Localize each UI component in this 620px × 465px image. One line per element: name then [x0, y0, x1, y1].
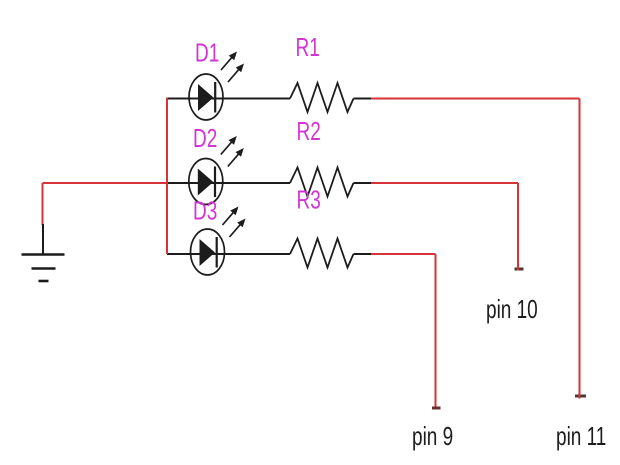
wire: row-1 anode black segment	[167, 98, 290, 100]
resistor R3	[290, 239, 354, 268]
wire: row-3 anode black segment	[167, 253, 290, 255]
wire: R1 output black stub	[354, 98, 372, 100]
wire: red cathode bus vertical	[166, 98, 168, 255]
resistor R1	[290, 83, 354, 112]
resistor R2	[290, 168, 354, 197]
svg-text:R3: R3	[297, 186, 321, 214]
wire: red net row2 horizontal to pin 10	[371, 182, 518, 184]
svg-text:pin 9: pin 9	[412, 422, 453, 450]
wire: ground branch horizontal red	[43, 182, 169, 184]
wire: red net row1 horizontal to pin 11	[371, 98, 580, 100]
wire: pin 9 vertical drop	[435, 254, 437, 407]
LED D1	[189, 52, 244, 121]
svg-text:pin 10: pin 10	[486, 295, 538, 323]
wire: R2 output black stub	[354, 182, 372, 184]
wire: red net row3 horizontal to pin 9	[371, 253, 436, 255]
svg-text:D1: D1	[195, 39, 219, 67]
svg-text:pin 11: pin 11	[556, 422, 606, 450]
ground	[22, 255, 65, 282]
pin 9 terminal tick	[432, 407, 441, 410]
wire: ground lead black	[42, 224, 44, 254]
LED D2	[189, 136, 244, 205]
svg-text:D3: D3	[193, 197, 217, 225]
wire: ground branch vertical red	[42, 183, 44, 225]
svg-text:D2: D2	[193, 124, 217, 152]
wire: R3 output black stub	[354, 253, 372, 255]
pin 11 terminal tick	[575, 395, 586, 398]
wire: pin 11 vertical drop	[579, 99, 581, 399]
LED D3	[191, 207, 246, 276]
wire: row-2 anode black segment	[167, 182, 290, 184]
svg-text:R2: R2	[297, 117, 321, 145]
svg-text:R1: R1	[296, 33, 320, 61]
pin 10 terminal tick	[515, 268, 524, 271]
wire: pin 10 vertical drop	[517, 183, 519, 269]
